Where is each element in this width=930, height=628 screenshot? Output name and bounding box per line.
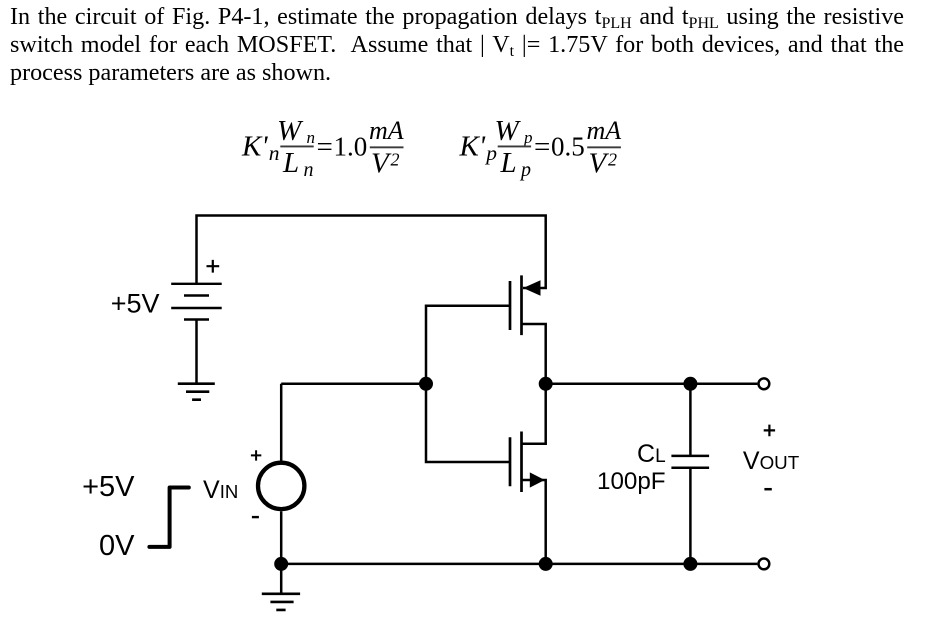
svg-text:W: W <box>277 115 304 147</box>
svg-text:VIN: VIN <box>203 476 238 504</box>
svg-text:W: W <box>495 115 522 147</box>
svg-text:=: = <box>534 131 550 163</box>
svg-text:1.0: 1.0 <box>334 131 368 161</box>
svg-text:p: p <box>519 159 531 181</box>
svg-text:V: V <box>589 148 610 180</box>
svg-text:=: = <box>317 131 333 163</box>
svg-text:+5V: +5V <box>82 471 135 503</box>
svg-text:VOUT: VOUT <box>743 447 800 475</box>
svg-text:V: V <box>371 148 392 180</box>
svg-text:CL: CL <box>637 440 666 468</box>
svg-text:0V: 0V <box>99 530 135 562</box>
svg-text:0.5: 0.5 <box>551 131 585 161</box>
svg-text:K': K' <box>241 130 268 162</box>
svg-text:mA: mA <box>587 116 622 145</box>
svg-text:p: p <box>523 128 533 147</box>
svg-text:100pF: 100pF <box>597 468 666 495</box>
svg-text:mA: mA <box>369 116 404 145</box>
svg-text:+5V: +5V <box>111 289 160 319</box>
svg-text:2: 2 <box>391 150 400 170</box>
svg-text:L: L <box>282 147 299 179</box>
svg-text:L: L <box>500 147 517 179</box>
svg-text:K': K' <box>459 130 486 162</box>
svg-text:n: n <box>304 159 314 181</box>
svg-text:2: 2 <box>608 150 617 170</box>
svg-text:n: n <box>307 128 316 147</box>
